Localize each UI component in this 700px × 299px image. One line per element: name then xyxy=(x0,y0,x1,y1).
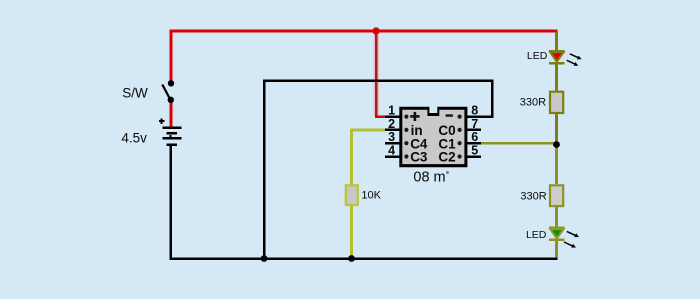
svg-text:4.5v: 4.5v xyxy=(121,131,147,146)
svg-text:1: 1 xyxy=(388,104,395,118)
svg-text:08 m: 08 m xyxy=(413,170,445,186)
svg-text:330R: 330R xyxy=(520,96,546,108)
svg-text:5: 5 xyxy=(471,144,478,158)
svg-text:C2: C2 xyxy=(438,150,455,165)
svg-text:10K: 10K xyxy=(361,189,381,201)
svg-text:8: 8 xyxy=(471,104,478,118)
svg-text:C3: C3 xyxy=(410,150,428,165)
svg-text:2: 2 xyxy=(388,117,395,131)
svg-text:7: 7 xyxy=(471,117,478,131)
svg-text:3: 3 xyxy=(388,130,395,144)
svg-text:LED: LED xyxy=(526,229,547,241)
svg-text:S/W: S/W xyxy=(122,85,148,100)
svg-text:330R: 330R xyxy=(520,190,546,202)
svg-text:4: 4 xyxy=(388,144,395,158)
svg-text:LED: LED xyxy=(527,50,548,62)
svg-text:6: 6 xyxy=(471,130,478,144)
